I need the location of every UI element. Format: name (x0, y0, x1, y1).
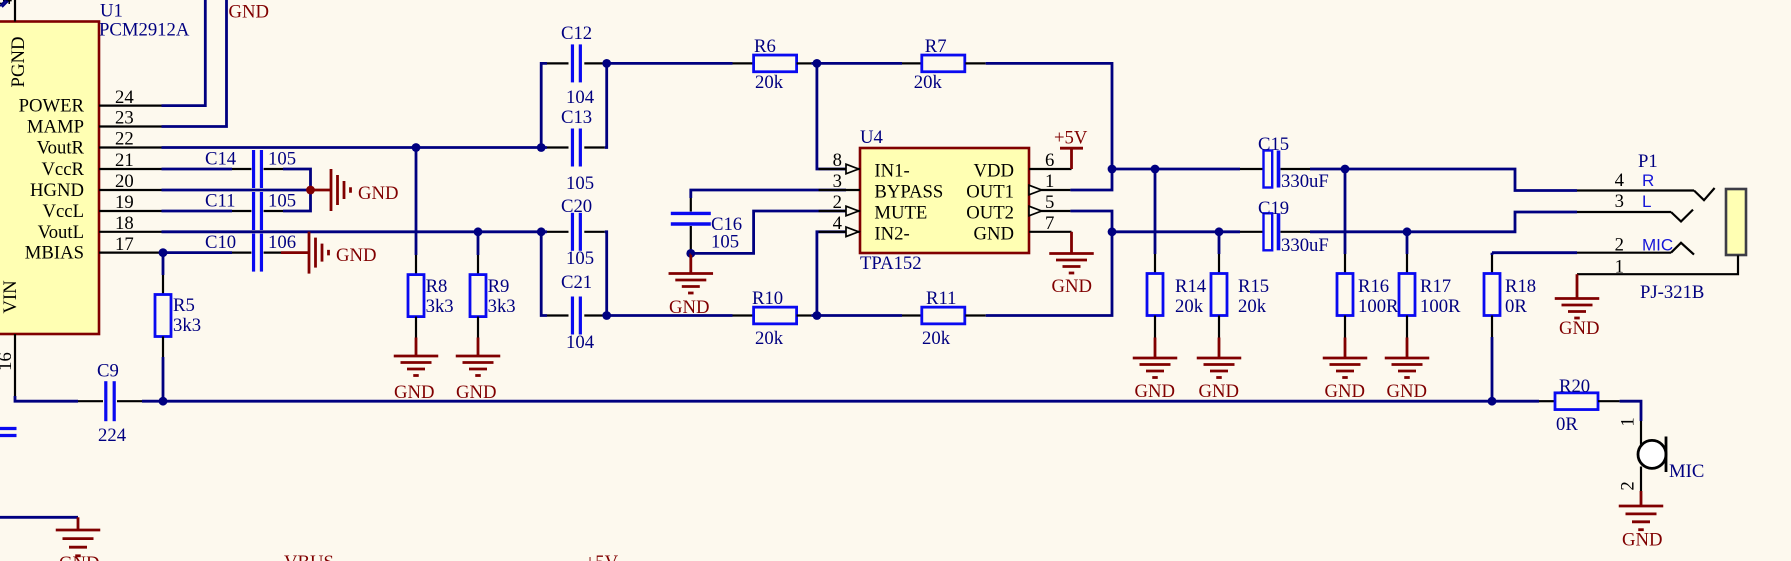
C19 value 330uF (1281, 235, 1329, 256)
U4 pin number 8 (833, 150, 842, 171)
svg-text:20k: 20k (1238, 296, 1267, 317)
ground label (1559, 318, 1600, 339)
capacitor C9 (106, 381, 114, 421)
svg-text:GND: GND (336, 245, 377, 266)
wire C11 to gnd node (283, 190, 311, 211)
svg-text:R8: R8 (426, 276, 448, 297)
wire R7 to OUT1 node (986, 63, 1112, 169)
P1 pin 3 contact (1671, 210, 1693, 222)
wire R17 riser (1406, 232, 1409, 254)
C21 designator (561, 272, 592, 293)
U4 pin 2 lead (819, 210, 860, 212)
P1 pin number 1 (1615, 256, 1624, 277)
capacitor C14 lead (232, 168, 251, 170)
wire VccL (162, 210, 233, 213)
wire pin16 to C9 (15, 396, 78, 401)
svg-text:GND: GND (1387, 381, 1428, 402)
U1 pin name VoutR (37, 138, 85, 159)
C9 value 224 (98, 425, 127, 446)
svg-text:C15: C15 (1258, 134, 1289, 155)
resistor R18 (1484, 274, 1500, 316)
capacitor C11 (254, 192, 262, 230)
svg-text:8: 8 (833, 150, 842, 171)
net label fragment top left (0, 0, 8, 7)
R20 value 0R (1556, 414, 1578, 435)
svg-text:3: 3 (833, 171, 842, 192)
wire OUT2 (1070, 211, 1112, 232)
P1 pin number 4 (1615, 170, 1625, 191)
ground label (394, 382, 435, 403)
ground symbol C10 (281, 232, 329, 274)
resistor R9 (470, 275, 486, 317)
U1 pin number 22 (115, 129, 134, 150)
wire pin24 to top (162, 0, 206, 106)
svg-text:1: 1 (1618, 417, 1639, 426)
U1 pin 18 lead (99, 231, 162, 233)
svg-text:R16: R16 (1358, 276, 1389, 297)
U4 pin 3 lead (819, 189, 860, 191)
resistor R17 lead (1406, 254, 1408, 274)
wire R16 riser (1344, 169, 1347, 254)
C14 value 105 (268, 149, 296, 170)
resistor R14 (1147, 274, 1163, 316)
P1 pin 3 lead (1577, 211, 1671, 213)
R5 designator (173, 295, 195, 316)
svg-text:C11: C11 (205, 191, 235, 212)
wire OUT1 row to C15 (1112, 168, 1240, 171)
U1 pin name VccL (43, 201, 85, 222)
capacitor C13 lead (584, 146, 605, 148)
U4 pin 2 input arrow (846, 206, 859, 216)
U1 pin 19 lead (99, 210, 162, 212)
ground label (1135, 381, 1176, 402)
svg-text:R: R (1642, 171, 1654, 190)
svg-text:P1: P1 (1638, 151, 1658, 172)
svg-text:PJ-321B: PJ-321B (1640, 282, 1704, 303)
C15 value 330uF (1281, 171, 1329, 192)
svg-text:0R: 0R (1556, 414, 1578, 435)
wire R14 riser (1154, 169, 1157, 254)
U1 value text (99, 20, 190, 41)
wire VoutR to R8 (415, 148, 418, 256)
U1 pin 22 lead (99, 146, 162, 148)
svg-text:105: 105 (268, 191, 296, 212)
R11 value 20k (922, 328, 951, 349)
svg-text:3k3: 3k3 (173, 315, 201, 336)
capacitor C10 lead (232, 252, 251, 254)
R5 value 3k3 (173, 315, 201, 336)
P1 pin number 3 (1615, 191, 1624, 212)
R7 value 20k (914, 72, 943, 93)
junction (412, 143, 421, 152)
R10 designator (752, 288, 783, 309)
C12 designator (561, 23, 592, 44)
svg-text:105: 105 (566, 248, 594, 269)
capacitor C21 lead (547, 314, 569, 316)
svg-text:C10: C10 (205, 232, 236, 253)
svg-text:C21: C21 (561, 272, 592, 293)
wire R11 to OUT2 node (986, 232, 1112, 316)
R18 designator (1505, 276, 1536, 297)
R7 designator (925, 36, 947, 57)
U1 pin name VoutL (38, 222, 84, 243)
U4 pin number 2 (833, 192, 842, 213)
U4 pin 1 lead (1029, 189, 1070, 191)
capacitor C11 lead (264, 210, 283, 212)
ground label (1622, 530, 1663, 551)
wire C21 to R10 (605, 314, 733, 317)
U1 pin 16 (14, 334, 16, 396)
capacitor C15 lead (1281, 168, 1311, 170)
svg-text:R17: R17 (1420, 276, 1451, 297)
wire BYPASS to C16 (691, 190, 846, 198)
capacitor C9 lead (117, 400, 142, 402)
svg-text:BYPASS: BYPASS (874, 182, 943, 203)
svg-text:2: 2 (1618, 481, 1639, 490)
P1 value PJ-321B (1640, 282, 1704, 303)
svg-text:VccL: VccL (43, 201, 85, 222)
capacitor C14 (254, 150, 262, 188)
svg-text:R20: R20 (1559, 376, 1590, 397)
capacitor C13 (572, 129, 580, 167)
resistor R17 lead (1406, 316, 1408, 338)
wire VoutR (162, 146, 548, 149)
U1 pin number 20 (115, 171, 134, 192)
svg-text:GND: GND (59, 553, 100, 561)
svg-text:20k: 20k (1175, 296, 1204, 317)
wire VoutL to R9 (477, 232, 480, 255)
wire C19 to P1 L (1310, 212, 1577, 232)
resistor R14 lead (1154, 316, 1156, 338)
P1 pin 4 contact (1694, 188, 1715, 200)
svg-text:VDD: VDD (974, 161, 1015, 182)
svg-text:VoutR: VoutR (37, 138, 85, 159)
svg-text:16: 16 (0, 352, 16, 371)
U4 pin number 7 (1045, 213, 1054, 234)
junction (159, 397, 168, 406)
svg-text:5: 5 (1045, 192, 1054, 213)
junction (1108, 165, 1117, 174)
svg-text:224: 224 (98, 425, 127, 446)
U4 pin name OUT2 (966, 203, 1014, 224)
R15 designator (1238, 276, 1269, 297)
C13 value 105 (566, 173, 594, 194)
svg-text:C13: C13 (561, 107, 592, 128)
junction (306, 186, 315, 195)
resistor R8 (408, 275, 424, 317)
capacitor C21 lead (584, 314, 605, 316)
junction (1403, 227, 1412, 236)
U4 pin number 1 (1045, 171, 1054, 192)
U1 pin name MAMP (27, 117, 84, 138)
resistor R20 lead (1598, 400, 1620, 402)
U1 top pin number fragment (0, 0, 13, 9)
U1 pin number 24 (115, 87, 134, 108)
resistor R7 lead (965, 62, 985, 64)
capacitor C13 lead (547, 146, 569, 148)
net label VBUS (284, 552, 334, 561)
capacitor C20 lead (547, 231, 569, 233)
P1 pin name L (1642, 192, 1651, 211)
ground label (1199, 381, 1240, 402)
R6 designator (754, 36, 776, 57)
ground symbol R9 (456, 338, 501, 376)
U1 pin 21 lead (99, 168, 162, 170)
C20 designator (561, 196, 592, 217)
resistor R8 lead (415, 317, 417, 338)
svg-text:GND: GND (1559, 318, 1600, 339)
svg-text:GND: GND (974, 223, 1015, 244)
U1 pin number 18 (115, 213, 134, 234)
power port GND label top (229, 2, 270, 23)
U4 pin 4 input arrow (846, 227, 859, 237)
R8 designator (426, 276, 448, 297)
ground label (358, 183, 399, 204)
svg-text:OUT1: OUT1 (966, 182, 1014, 203)
junction (813, 59, 822, 68)
resistor R18 lead (1491, 255, 1493, 274)
capacitor C10 (254, 234, 262, 272)
junction (1108, 227, 1117, 236)
ground symbol R17 (1385, 338, 1430, 378)
resistor R15 lead (1218, 316, 1220, 338)
wire riser to C12 (541, 63, 547, 147)
wire C13 riser (605, 63, 607, 147)
MIC pin number 1 (1618, 417, 1639, 426)
U4 pin 8 input arrow (846, 164, 859, 174)
wire MBIAS (162, 251, 233, 254)
P1 pin 4 lead (1577, 189, 1694, 191)
wire R10 to R11 (811, 314, 902, 317)
capacitor partial left edge (0, 429, 17, 436)
svg-text:C14: C14 (205, 149, 237, 170)
U4 pin 5 output arrow (1029, 206, 1042, 216)
svg-text:C9: C9 (97, 361, 119, 382)
svg-text:2: 2 (1615, 235, 1624, 256)
svg-text:GND: GND (358, 183, 399, 204)
U1 pin number 21 (115, 150, 134, 171)
svg-text:VIN: VIN (0, 280, 21, 314)
svg-text:R7: R7 (925, 36, 947, 57)
C15 designator (1258, 134, 1289, 155)
svg-text:HGND: HGND (30, 180, 84, 201)
ground symbol MIC (1619, 491, 1664, 530)
svg-text:OUT2: OUT2 (966, 203, 1014, 224)
svg-text:7: 7 (1045, 213, 1054, 234)
C12 value 104 (566, 87, 595, 108)
svg-text:R11: R11 (926, 288, 956, 309)
U4 pin 4 lead (819, 231, 860, 233)
svg-text:TPA152: TPA152 (860, 253, 922, 274)
R20 designator (1559, 376, 1590, 397)
ground symbol R15 (1197, 338, 1242, 378)
resistor R10 lead (733, 314, 754, 316)
U4 pin name BYPASS (874, 182, 943, 203)
U1 pin number 23 (115, 108, 134, 129)
wire pin23 to top GND (162, 0, 227, 127)
svg-text:0R: 0R (1505, 296, 1527, 317)
R18 value 0R (1505, 296, 1527, 317)
resistor R15 (1211, 274, 1227, 316)
U4 pin name IN1- (874, 161, 909, 182)
svg-text:21: 21 (115, 150, 134, 171)
wire bottom left (0, 516, 78, 519)
resistor R5 lead (162, 337, 164, 358)
svg-text:3: 3 (1615, 191, 1624, 212)
ground label (1052, 276, 1093, 297)
ground symbol C16 (669, 253, 714, 293)
svg-text:20k: 20k (914, 72, 943, 93)
U4 pin name OUT1 (966, 182, 1014, 203)
wire VoutL (162, 230, 548, 233)
resistor R7 lead (902, 62, 922, 64)
U4 pin 5 lead (1029, 210, 1070, 212)
C21 value 104 (566, 332, 595, 353)
svg-text:VBUS: VBUS (284, 552, 334, 561)
svg-text:20k: 20k (755, 72, 784, 93)
microphone MIC pin 1 lead (1640, 421, 1642, 446)
capacitor C15 lead (1240, 168, 1264, 170)
junction (537, 227, 546, 236)
capacitor C10 lead (264, 252, 281, 254)
U1 pin number 17 (115, 234, 134, 255)
wire R5 to bus (162, 357, 165, 401)
R9 value 3k3 (488, 296, 516, 317)
U4 pin number 5 (1045, 192, 1054, 213)
resistor R14 lead (1154, 254, 1156, 274)
svg-text:GND: GND (1622, 530, 1663, 551)
svg-text:6: 6 (1045, 150, 1054, 171)
ground symbol R16 (1323, 338, 1368, 378)
capacitor C20 lead (584, 231, 605, 233)
P1 pin name MIC (1642, 236, 1673, 255)
svg-text:3k3: 3k3 (488, 296, 516, 317)
ground symbol U4 (1049, 232, 1094, 273)
svg-text:2: 2 (833, 192, 842, 213)
U1 top pin (14, 0, 16, 22)
capacitor C19 (1264, 213, 1279, 250)
R9 designator (488, 276, 510, 297)
wire R18 riser (1491, 253, 1494, 255)
capacitor C19 lead (1240, 231, 1264, 233)
wire C14 to gnd node (283, 169, 311, 190)
ground label (1325, 381, 1366, 402)
svg-text:20k: 20k (922, 328, 951, 349)
U4 value TPA152 (860, 253, 922, 274)
svg-text:104: 104 (566, 332, 595, 353)
svg-text:L: L (1642, 192, 1651, 211)
wire C12 to R6 (605, 62, 733, 65)
capacitor C9 lead (78, 400, 103, 402)
svg-text:105: 105 (268, 149, 296, 170)
wire R15 riser (1218, 232, 1221, 254)
svg-text:R10: R10 (752, 288, 783, 309)
svg-text:330uF: 330uF (1281, 171, 1329, 192)
svg-text:U1: U1 (100, 1, 123, 22)
C16 designator (711, 214, 742, 235)
svg-text:GND: GND (229, 2, 270, 23)
svg-text:VoutL: VoutL (38, 222, 84, 243)
junction (1488, 397, 1497, 406)
svg-text:100R: 100R (1420, 296, 1461, 317)
P1 pin 2 lead (1577, 252, 1671, 254)
ground symbol HGND (311, 169, 351, 211)
ground symbol bottom left (56, 517, 101, 556)
U1 pin 17 lead (99, 252, 162, 254)
capacitor C11 lead (232, 210, 251, 212)
junction (1341, 165, 1350, 174)
C10 value 106 (268, 232, 296, 253)
P1 pin 1 lead (1577, 255, 1738, 274)
svg-text:105: 105 (566, 173, 594, 194)
MIC designator (1669, 461, 1704, 482)
wire R6 to R7 (811, 62, 902, 65)
power port +5V (1060, 148, 1083, 169)
P1 pin name R (1642, 171, 1654, 190)
R6 value 20k (755, 72, 784, 93)
wire R18 to bus (1491, 337, 1494, 401)
+5V label (1054, 128, 1088, 149)
U4 pin 6 lead (1029, 168, 1072, 170)
capacitor C12 lead (584, 62, 605, 64)
svg-text:4: 4 (833, 213, 843, 234)
svg-text:19: 19 (115, 192, 134, 213)
wire IN2- riser (817, 232, 846, 316)
resistor R16 lead (1344, 316, 1346, 338)
svg-text:IN1-: IN1- (874, 161, 909, 182)
resistor R7 (922, 55, 965, 72)
U4 pin 8 lead (819, 168, 860, 170)
C11 value 105 (268, 191, 296, 212)
svg-text:PCM2912A: PCM2912A (99, 20, 190, 41)
op-amp U1 PCM2912A body (0, 22, 99, 335)
capacitor C19 lead (1281, 231, 1311, 233)
svg-text:R9: R9 (488, 276, 510, 297)
resistor R8 lead (415, 255, 417, 275)
U4 pin name GND (974, 223, 1015, 244)
U1 pin name VccR (41, 159, 84, 180)
net label +5V (585, 552, 619, 561)
svg-text:+5V: +5V (1054, 128, 1088, 149)
C13 designator (561, 107, 592, 128)
C19 designator (1258, 198, 1289, 219)
wire R20 to MIC (1620, 401, 1641, 421)
wire C15 to P1 R (1310, 169, 1577, 191)
U4 pin name MUTE (874, 203, 927, 224)
svg-text:1: 1 (1615, 256, 1624, 277)
microphone MIC symbol (1638, 437, 1666, 473)
resistor R20 (1555, 393, 1598, 410)
ground label (1387, 381, 1428, 402)
U1 pin 23 lead (99, 125, 162, 127)
wire MIC net (1492, 251, 1577, 254)
svg-text:POWER: POWER (19, 96, 85, 117)
svg-text:GND: GND (1135, 381, 1176, 402)
ground label (59, 553, 100, 561)
U1 rotated name PGND (8, 37, 29, 88)
wire bus (142, 400, 1539, 403)
svg-text:GND: GND (1199, 381, 1240, 402)
resistor R20 lead (1539, 400, 1555, 402)
svg-text:3k3: 3k3 (426, 296, 454, 317)
svg-text:U4: U4 (860, 127, 883, 148)
P1 designator (1638, 151, 1658, 172)
R17 designator (1420, 276, 1451, 297)
R11 designator (926, 288, 956, 309)
svg-text:105: 105 (711, 232, 739, 253)
microphone MIC pin 2 lead (1640, 467, 1642, 492)
U4 pin number 3 (833, 171, 842, 192)
